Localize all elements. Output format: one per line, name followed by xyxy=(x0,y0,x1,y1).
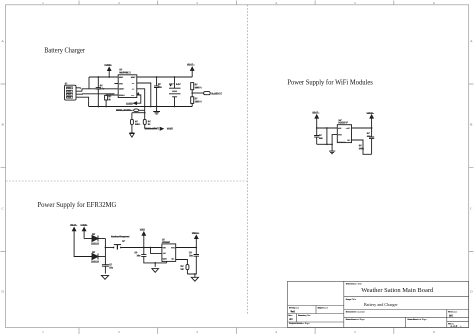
svg-text:VWIFI: VWIFI xyxy=(367,113,374,115)
svg-text:C?: C? xyxy=(100,85,104,87)
svg-text:A4: A4 xyxy=(289,317,293,321)
svg-text:C?: C? xyxy=(367,133,371,135)
svg-text:4: 4 xyxy=(275,330,277,334)
svg-text:2k: 2k xyxy=(108,99,111,101)
svg-text:PROG: PROG xyxy=(119,95,125,97)
svg-text:Drawing No.: Drawing No. xyxy=(298,315,311,317)
svg-text:TsB: TsB xyxy=(291,309,296,313)
svg-text:1: 1 xyxy=(42,330,44,334)
svg-text:U?: U? xyxy=(119,70,123,72)
svg-text:A: A xyxy=(470,39,473,43)
svg-text:C?: C? xyxy=(319,135,323,137)
svg-text:VSS: VSS xyxy=(338,134,343,136)
svg-text:VIN: VIN xyxy=(338,128,342,130)
svg-text:10u: 10u xyxy=(319,138,324,140)
svg-text:10u: 10u xyxy=(136,255,141,257)
svg-text:NC: NC xyxy=(172,259,175,261)
svg-text:VBAT: VBAT xyxy=(70,224,77,227)
svg-text:1: 1 xyxy=(42,1,44,5)
svg-text:XC6206: XC6206 xyxy=(338,142,346,144)
svg-text:6: 6 xyxy=(433,1,435,5)
svg-text:C: C xyxy=(470,207,473,211)
svg-text:VBAT: VBAT xyxy=(119,88,125,91)
svg-text:Document number: Document number xyxy=(346,310,365,313)
svg-text:3: 3 xyxy=(196,330,198,334)
svg-text:D: D xyxy=(1,290,4,294)
svg-text:C?: C? xyxy=(158,84,162,86)
svg-text:VDD: VDD xyxy=(119,77,124,79)
svg-text:D?: D? xyxy=(92,252,96,254)
svg-text:R?: R? xyxy=(148,121,152,123)
svg-text:VSS: VSS xyxy=(119,83,124,85)
svg-text:Designed: Designed xyxy=(289,307,300,309)
svg-text:Power Supply for EFR32MG: Power Supply for EFR32MG xyxy=(37,200,116,209)
svg-text:Battery Charger: Battery Charger xyxy=(44,45,85,54)
svg-text:Approved: Approved xyxy=(318,306,329,309)
svg-text:Battery and Charger: Battery and Charger xyxy=(364,302,398,307)
svg-text:HT7833: HT7833 xyxy=(162,242,171,244)
svg-text:1M/1%: 1M/1% xyxy=(195,102,202,104)
svg-text:CE: CE xyxy=(163,253,166,255)
svg-text:VIN: VIN xyxy=(163,247,167,249)
svg-text:1N5819: 1N5819 xyxy=(91,244,100,246)
svg-text:CBM1_STATE: CBM1_STATE xyxy=(116,109,131,112)
svg-text:Revision: Revision xyxy=(448,311,458,313)
svg-text:3: 3 xyxy=(196,1,198,5)
svg-text:VIN?: VIN? xyxy=(140,230,146,232)
svg-text:NC: NC xyxy=(348,140,351,142)
svg-text:Cutline Required: Cutline Required xyxy=(111,235,130,238)
svg-text:VO: VO xyxy=(347,128,350,130)
svg-text:VBAT: VBAT xyxy=(187,64,194,67)
svg-text:Power Supply for WiFi Modules: Power Supply for WiFi Modules xyxy=(287,77,372,86)
svg-text:GND: GND xyxy=(163,259,168,261)
svg-text:VBAT: VBAT xyxy=(312,112,319,115)
svg-text:10u: 10u xyxy=(367,136,372,138)
svg-text:Project Leader Sign: Project Leader Sign xyxy=(289,322,310,325)
svg-text:VOUT: VOUT xyxy=(171,247,177,249)
svg-text:001: 001 xyxy=(449,314,454,318)
svg-text:2: 2 xyxy=(118,330,120,334)
svg-text:6: 6 xyxy=(433,330,435,334)
svg-text:D?: D? xyxy=(92,234,96,236)
svg-text:R?: R? xyxy=(195,99,199,101)
svg-text:5: 5 xyxy=(354,330,356,334)
svg-text:4.7u: 4.7u xyxy=(100,87,105,90)
svg-text:VUSB: VUSB xyxy=(167,129,174,131)
svg-text:VUSB: VUSB xyxy=(126,104,133,106)
svg-text:STAT: STAT xyxy=(131,76,137,79)
svg-text:XC6206P: XC6206P xyxy=(338,123,348,125)
svg-text:B: B xyxy=(470,123,473,127)
svg-text:C: C xyxy=(1,207,4,211)
svg-text:VMCU: VMCU xyxy=(192,233,199,235)
svg-text:MCP73831: MCP73831 xyxy=(119,72,131,74)
svg-text:10u: 10u xyxy=(189,255,194,257)
svg-text:A: A xyxy=(1,39,4,43)
svg-text:R?: R? xyxy=(195,84,199,86)
svg-text:Weather Sation Main Board: Weather Sation Main Board xyxy=(361,287,434,294)
svg-text:C?: C? xyxy=(359,145,363,147)
svg-text:D: D xyxy=(470,290,473,294)
svg-text:1M/1%: 1M/1% xyxy=(195,87,202,89)
svg-text:1M: 1M xyxy=(180,269,183,271)
svg-text:2: 2 xyxy=(118,1,120,5)
svg-text:10u: 10u xyxy=(158,87,163,89)
svg-text:Page Title: Page Title xyxy=(346,298,357,301)
svg-text:Date Revised Sign: Date Revised Sign xyxy=(408,318,428,321)
svg-text:2k: 2k xyxy=(148,124,151,126)
svg-text:B_SENSE: B_SENSE xyxy=(211,94,222,96)
svg-text:B: B xyxy=(1,123,4,127)
svg-text:3.7V: 3.7V xyxy=(176,84,181,86)
svg-text:S?: S? xyxy=(122,241,126,243)
svg-text:1 of 6: 1 of 6 xyxy=(451,324,458,328)
svg-text:C?: C? xyxy=(135,121,139,123)
svg-text:Schematic Title: Schematic Title xyxy=(346,282,363,285)
svg-text:4: 4 xyxy=(275,1,277,5)
svg-text:R?: R? xyxy=(180,266,184,268)
svg-text:CBM1_STATE: CBM1_STATE xyxy=(145,128,160,131)
svg-text:BT?: BT? xyxy=(169,84,174,86)
svg-text:VUSB: VUSB xyxy=(80,225,87,227)
svg-text:R?: R? xyxy=(108,96,112,98)
svg-text:C?: C? xyxy=(109,265,113,267)
svg-text:C?: C? xyxy=(189,252,193,254)
svg-text:100n: 100n xyxy=(359,148,365,150)
svg-text:5: 5 xyxy=(354,1,356,5)
svg-text:100n: 100n xyxy=(135,124,141,126)
svg-text:VUSB: VUSB xyxy=(104,65,111,67)
svg-text:1N5819: 1N5819 xyxy=(91,262,100,264)
svg-text:10u: 10u xyxy=(109,268,114,270)
svg-text:Date Created Sign: Date Created Sign xyxy=(346,318,366,321)
svg-text:C?: C? xyxy=(134,252,138,254)
svg-text:Size: Size xyxy=(288,315,293,317)
